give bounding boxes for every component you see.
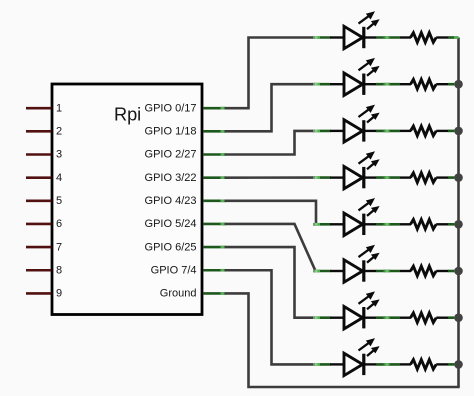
svg-text:6: 6 [56,218,62,230]
svg-text:GPIO 2/27: GPIO 2/27 [145,149,197,161]
LED D7 [313,291,400,329]
pin 9 stub [26,292,51,295]
svg-text:GPIO 7/4: GPIO 7/4 [151,264,197,276]
LED D8 [313,338,400,376]
node junction row5 [454,220,463,229]
node junction row6 [454,267,463,276]
svg-text:4: 4 [56,172,62,184]
resistor R3 [400,126,459,136]
LED D1 [313,11,400,49]
wire GPIO 5/24 to LED6 [225,224,316,271]
pin 4 stub [26,176,51,179]
LED D2 [313,58,400,95]
LED D3 [313,105,400,143]
resistor R7 [400,313,459,323]
wire GPIO 4/23 to LED5 [225,201,317,225]
svg-text:8: 8 [56,264,62,276]
wire GPIO 3/22 to LED4 [225,176,315,179]
svg-text:9: 9 [56,288,62,300]
resistor R2 [400,79,459,89]
svg-text:GPIO 5/24: GPIO 5/24 [145,218,197,230]
LED D5 [313,198,400,236]
svg-text:5: 5 [56,195,62,207]
pin GPIO 3/22 leg [203,176,226,179]
resistor R8 [400,360,459,370]
pin GPIO 4/23 leg [203,200,226,203]
node junction row3 [454,127,463,136]
svg-text:3: 3 [56,149,62,161]
pin 1 stub [26,107,51,110]
pin GPIO 7/4 leg [203,269,226,272]
svg-text:GPIO 6/25: GPIO 6/25 [145,241,197,253]
pin GPIO 0/17 leg [203,107,226,110]
pin Ground leg [203,292,226,295]
wire GPIO 6/25 to LED7 [225,247,315,318]
svg-text:GPIO 0/17: GPIO 0/17 [145,102,197,114]
pin 6 stub [26,223,51,226]
wire GPIO 2/27 to LED3 [225,131,315,155]
pin GPIO 2/27 leg [203,153,226,156]
node junction row4 [454,173,463,182]
pin 8 stub [26,269,51,272]
svg-text:7: 7 [56,241,62,253]
resistor R1 [400,33,459,43]
pin 3 stub [26,153,51,156]
pin 2 stub [26,130,51,133]
pin GPIO 1/18 leg [203,130,226,133]
node junction row7 [454,313,463,322]
resistor R5 [400,220,459,230]
svg-text:GPIO 4/23: GPIO 4/23 [145,195,197,207]
pin 7 stub [26,246,51,249]
pin GPIO 6/25 leg [203,246,226,249]
LED D4 [313,151,400,189]
pin 5 stub [26,200,51,203]
resistor R6 [400,266,459,276]
wire right ground bus [457,38,460,388]
svg-text:GPIO 3/22: GPIO 3/22 [145,172,197,184]
node junction row8 [454,360,463,369]
pin GPIO 5/24 leg [203,223,226,226]
svg-text:Rpi: Rpi [114,104,141,124]
wire GPIO 7/4 to LED8 [225,270,315,364]
node junction row2 [454,80,463,89]
svg-text:1: 1 [56,102,62,114]
svg-text:Ground: Ground [160,288,197,300]
wire GPIO 1/18 to LED2 [225,84,315,131]
LED D6 [313,245,400,283]
svg-text:2: 2 [56,126,62,138]
wire GPIO 0/17 to LED1 [225,38,315,109]
wire Ground to bus [225,293,460,387]
resistor R4 [400,173,459,183]
IC U1 Rpi body [52,84,202,315]
svg-text:GPIO 1/18: GPIO 1/18 [145,126,197,138]
